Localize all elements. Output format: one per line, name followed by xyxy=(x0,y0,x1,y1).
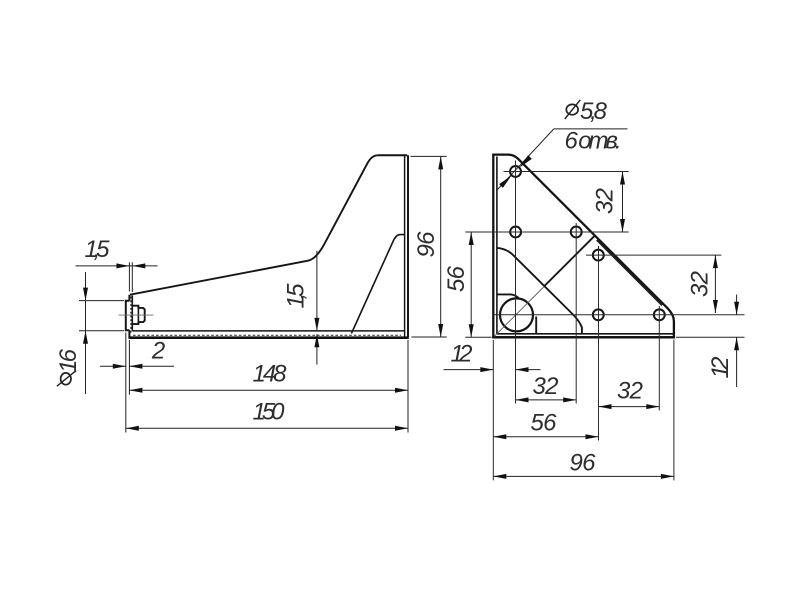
left view: boss centerline xyxy=(119,314,154,316)
svg-text:2: 2 xyxy=(151,338,165,365)
hole 1 (top) xyxy=(510,166,521,177)
right view: inner bottom line xyxy=(497,333,674,335)
left view: inner web profile (horizontal, curve, steep slant) xyxy=(351,235,405,334)
right view: boss top edge line and curve xyxy=(497,294,520,299)
svg-text:16: 16 xyxy=(55,348,82,373)
svg-text:1,5: 1,5 xyxy=(85,236,111,263)
dimension 12 (bottom left horizontal) xyxy=(444,369,541,371)
svg-text:12: 12 xyxy=(451,341,473,368)
column extension line x=598.5 xyxy=(598,246,600,441)
hole 6 xyxy=(654,309,665,320)
column extension line x=576.2 xyxy=(575,223,577,404)
left view: boss flange on wall (d16) xyxy=(126,301,130,330)
left view: bottom plate top line xyxy=(132,330,404,332)
right view: rib left edge (45 deg from apex) xyxy=(544,236,595,286)
centerline row4 through big hole, holes 5,6 xyxy=(494,314,745,316)
svg-text:1,5: 1,5 xyxy=(283,283,310,309)
column extension line x=515.5 xyxy=(515,161,517,404)
right view: big hole (boss d16) xyxy=(500,298,533,331)
dimension 12 (right side, row4 to bottom) xyxy=(676,295,745,388)
svg-text:148: 148 xyxy=(253,361,288,388)
right view: boss right edge vertical xyxy=(535,317,537,334)
hole 5 xyxy=(593,309,604,320)
svg-text:32: 32 xyxy=(533,373,559,400)
svg-text:32: 32 xyxy=(617,378,643,405)
dimension 56 (bottom horizontal) xyxy=(493,436,598,438)
dimension 1,5 (wall thickness, top left) xyxy=(76,262,158,292)
extension of right edge down xyxy=(673,340,675,481)
svg-text:12: 12 xyxy=(707,357,734,379)
leader d5,8 / 6 holes xyxy=(498,129,628,190)
dimension 56 (left side vertical, row2 to bottom) xyxy=(465,232,491,337)
svg-text:150: 150 xyxy=(253,399,286,426)
column extension line x=659.3 xyxy=(658,306,660,410)
hole 2 xyxy=(510,227,521,238)
svg-text:6 отв.: 6 отв. xyxy=(565,128,622,155)
dimension 32 (top right, vertical rows 1-2) xyxy=(622,172,624,233)
right view: inner wall line xyxy=(496,157,498,334)
svg-text:56: 56 xyxy=(531,410,558,437)
dimension 32 (bottom, cols 1-2) xyxy=(516,399,577,401)
dimension diameter 16 (boss flange) xyxy=(79,272,124,394)
dimension 2 (flange protrusion) xyxy=(100,333,174,433)
right view: bottom outer edge thick xyxy=(492,336,675,338)
right view: inner hypotenuse line xyxy=(597,240,662,305)
svg-text:5,8: 5,8 xyxy=(580,98,608,125)
svg-text:96: 96 xyxy=(570,450,597,477)
hole 3 xyxy=(571,227,582,238)
dimension 32 (bottom, cols 3-4) xyxy=(599,406,660,408)
dimension 96 (bottom horizontal overall) xyxy=(493,475,674,477)
dimension 32 (right side, rows 3-4) xyxy=(714,255,716,313)
centerline row1 through hole1 xyxy=(504,171,629,173)
left view: hidden dashed line (web bottom) xyxy=(133,334,401,336)
left view: hidden hole dashed line in wall xyxy=(130,297,132,335)
right view: diagonal centerline through big hole xyxy=(494,287,543,336)
centerline row3 through hole4 xyxy=(586,254,721,256)
svg-text:56: 56 xyxy=(443,265,470,292)
dimension 148 xyxy=(129,389,408,391)
left view: outer profile (wall, slant, steep rise, top, right edge) xyxy=(129,155,408,338)
svg-text:96: 96 xyxy=(413,231,440,258)
extension of left edge down xyxy=(492,340,494,480)
right view: outer outline xyxy=(493,155,674,338)
hole 4 xyxy=(593,250,604,261)
left view: bottom outer edge (thick) xyxy=(129,336,409,339)
dimension 150 xyxy=(126,340,408,433)
svg-text:32: 32 xyxy=(592,188,619,214)
right view: rib right edge with top arc and bottom fillet xyxy=(497,248,582,334)
dimension 96 (left view height) xyxy=(411,156,447,337)
dimension 1,5 (web thickness, bottom middle) xyxy=(316,251,318,365)
centerline row2 through holes 2,3 xyxy=(465,231,628,233)
left view: boss body (nut) xyxy=(132,306,144,324)
svg-text:32: 32 xyxy=(687,271,714,297)
